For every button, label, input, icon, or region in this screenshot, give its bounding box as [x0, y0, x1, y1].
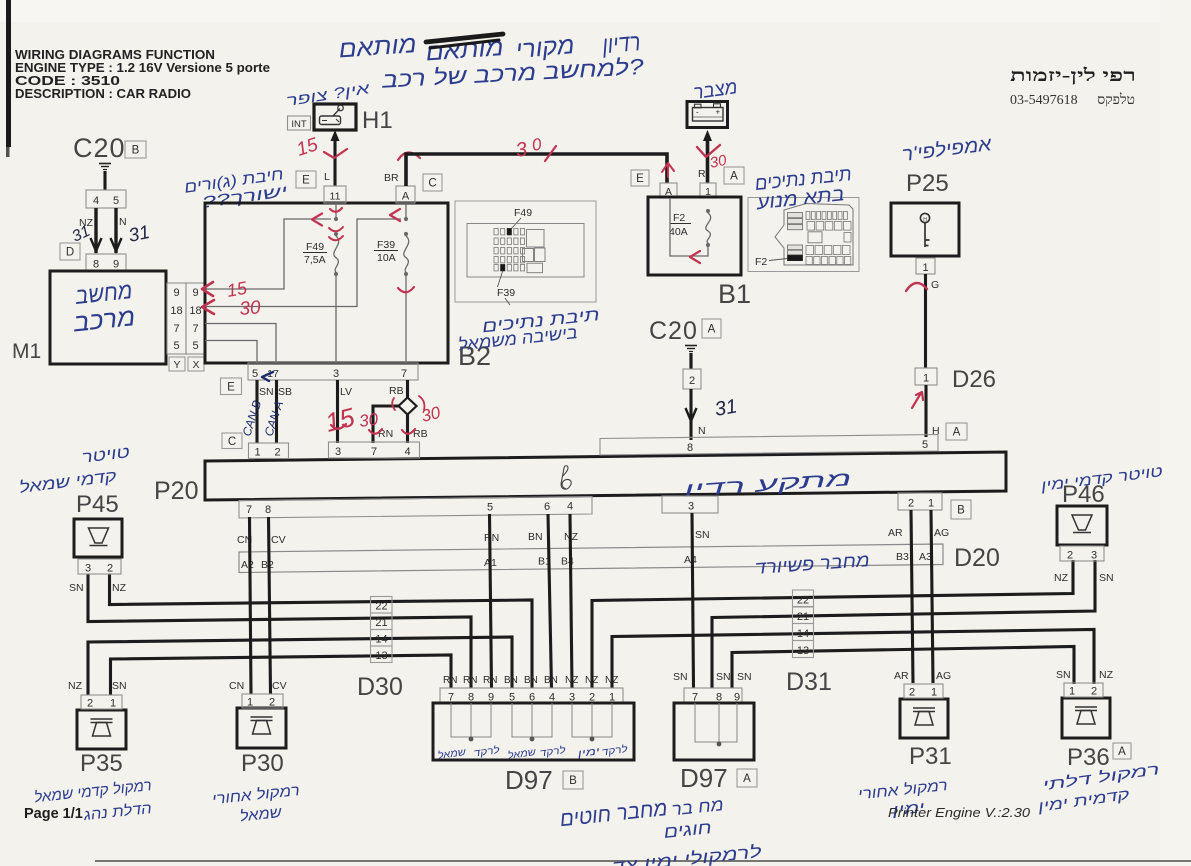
svg-text:CV: CV — [272, 680, 287, 692]
svg-text:9: 9 — [173, 287, 179, 299]
P35 pin row 2 1 — [81, 695, 122, 709]
svg-text:E: E — [636, 173, 644, 185]
svg-text:B3: B3 — [896, 551, 909, 563]
B2 internal wire from M1 pin18 to F39 — [205, 219, 401, 307]
unit P25 box with key icon — [891, 203, 959, 256]
svg-text:AR: AR — [894, 670, 909, 682]
svg-text:18: 18 — [170, 305, 182, 317]
svg-text:22: 22 — [797, 595, 809, 607]
D97A internal bridge — [695, 703, 737, 742]
crossover wire 22 left: P45 NZ to D97B pin6 — [110, 574, 533, 688]
unit H1 box with radio icon — [314, 104, 356, 130]
svg-text:RN: RN — [463, 675, 477, 686]
battery A1 — [687, 102, 728, 128]
svg-text:B: B — [132, 145, 140, 157]
wire NZ B4 vertical — [570, 514, 572, 688]
fusebox inset (dashboard) outer box — [455, 201, 596, 302]
svg-text:NZ: NZ — [1099, 669, 1114, 681]
B1 pin 1 box — [700, 183, 716, 198]
svg-text:2: 2 — [1067, 550, 1073, 562]
ground symbol C20B — [99, 163, 111, 165]
wire RN A1 vertical — [490, 514, 492, 688]
fuse F2 black bar — [788, 255, 803, 260]
connector box C top — [423, 174, 442, 191]
P36 pin row 1 2 — [1064, 683, 1103, 697]
svg-text:5: 5 — [252, 368, 258, 380]
svg-text:10A: 10A — [377, 252, 396, 264]
svg-text:R: R — [698, 168, 706, 180]
wire LV from pin3 — [336, 380, 339, 443]
svg-text:1: 1 — [1069, 686, 1075, 698]
svg-text:RB: RB — [389, 385, 404, 397]
svg-text:RN: RN — [484, 532, 499, 544]
svg-text:14: 14 — [797, 628, 809, 640]
svg-text:SN: SN — [737, 671, 752, 683]
svg-text:D20: D20 — [954, 544, 1000, 572]
svg-text:Page 1/1: Page 1/1 — [24, 806, 83, 822]
bottom scanner line — [95, 860, 1191, 862]
wire CV vertical — [269, 517, 271, 694]
radio icon inside H1 — [320, 116, 341, 125]
svg-text:F2: F2 — [755, 256, 767, 268]
svg-text:H: H — [923, 217, 927, 223]
INT connector box — [288, 116, 311, 130]
svg-text:1: 1 — [931, 687, 937, 699]
svg-text:Printer Engine V.:2.30: Printer Engine V.:2.30 — [888, 806, 1030, 820]
inner fusebox outline — [467, 224, 584, 278]
svg-text:21: 21 — [797, 611, 809, 623]
svg-text:D31: D31 — [786, 668, 832, 696]
svg-text:P30: P30 — [241, 750, 284, 777]
P20 top pin row right 8 5 — [600, 435, 938, 456]
wire CN vertical — [250, 517, 252, 694]
svg-text:2: 2 — [87, 698, 93, 710]
svg-text:טלפקס: טלפקס — [1097, 92, 1135, 108]
wire F49 to pin3 — [335, 276, 337, 363]
D97B pin row — [440, 688, 623, 703]
svg-text:4: 4 — [404, 446, 410, 458]
svg-text:D97: D97 — [505, 765, 553, 795]
wire G from P25 to D26 — [924, 274, 927, 368]
svg-text:C: C — [428, 178, 436, 190]
B2 pin A box — [396, 186, 415, 203]
svg-text:3: 3 — [1091, 550, 1097, 562]
svg-text:NZ: NZ — [112, 582, 127, 594]
wire from battery to B1 pin 1 — [706, 141, 710, 183]
junction boxes D30 left 22 21 14 13 — [371, 597, 393, 614]
svg-text:30: 30 — [358, 409, 380, 431]
svg-text:3: 3 — [85, 563, 91, 575]
junction boxes D31 right 22 21 14 13 — [793, 590, 814, 607]
svg-text:RN: RN — [483, 675, 497, 686]
crossover wire 13 right: D97A pin9 to P36 SN — [732, 647, 1074, 689]
svg-text:31: 31 — [127, 222, 152, 247]
svg-text:P35: P35 — [80, 750, 123, 777]
connector box B — [951, 500, 971, 519]
svg-text:22: 22 — [375, 601, 387, 613]
svg-text:INT: INT — [291, 119, 307, 130]
svg-text:SN: SN — [1056, 669, 1071, 681]
wire SN CAN from pin5 — [255, 380, 258, 443]
speaker P31 box rear-right — [900, 699, 948, 738]
svg-text:18: 18 — [189, 305, 201, 317]
svg-text:2: 2 — [274, 447, 280, 459]
svg-text:1: 1 — [928, 498, 934, 510]
svg-text:P36: P36 — [1067, 744, 1110, 771]
svg-text:30: 30 — [239, 297, 262, 320]
svg-text:SN: SN — [1099, 572, 1114, 584]
red arrow at B1 pin A — [662, 163, 674, 177]
svg-text:BN: BN — [524, 675, 538, 686]
P20 bottom pin row 3 — [662, 496, 718, 513]
svg-text:A4: A4 — [684, 554, 697, 566]
module B2 box — [205, 203, 448, 363]
connector box A at P20 pin5 — [946, 423, 967, 440]
wire stub from ground — [103, 171, 106, 190]
red check over H1 wire — [324, 149, 347, 158]
svg-text:X: X — [192, 359, 199, 371]
junction D26 pin 1 box — [915, 368, 937, 385]
P25 pin 1 box — [916, 258, 935, 274]
svg-text:LV: LV — [340, 386, 352, 398]
P30 pin row 1 2 — [242, 694, 283, 708]
svg-text:8: 8 — [93, 259, 99, 271]
svg-text:AG: AG — [936, 670, 951, 682]
svg-text:C20: C20 — [649, 317, 698, 345]
wire N from C20A to P20 pin 8 — [689, 389, 692, 440]
D97A pin row — [684, 688, 742, 703]
wire NZ pin4 — [94, 208, 97, 253]
svg-text:AR: AR — [888, 527, 903, 539]
svg-text:1: 1 — [247, 697, 253, 709]
speaker P36 box front-right door — [1062, 698, 1110, 738]
svg-text:7: 7 — [371, 446, 377, 458]
C20A pin 2 box — [683, 369, 701, 389]
svg-text:1: 1 — [923, 373, 929, 385]
connector box D — [60, 243, 80, 260]
svg-text:7: 7 — [246, 504, 252, 516]
svg-text:Y: Y — [173, 359, 180, 371]
svg-text:-: - — [696, 108, 699, 117]
svg-text:A2: A2 — [241, 559, 254, 571]
svg-text:14: 14 — [375, 634, 387, 646]
fusebox small fuses — [806, 212, 810, 220]
connector C20B pins 4 5 — [86, 190, 126, 208]
svg-text:7: 7 — [173, 323, 179, 335]
svg-text:5: 5 — [192, 340, 198, 352]
fusebox outline drawing — [775, 204, 853, 266]
svg-text:DESCRIPTION : CAR RADIO: DESCRIPTION : CAR RADIO — [15, 86, 191, 101]
svg-text:A: A — [1118, 746, 1126, 758]
B2 internal wire pin7 row — [205, 324, 276, 364]
svg-text:13: 13 — [375, 650, 387, 662]
speaker P45 box tweeter front-left — [74, 519, 122, 557]
speaker P35 box front-left door — [77, 710, 126, 749]
speaker P46 box tweeter front-right — [1057, 506, 1107, 545]
svg-text:G: G — [931, 279, 939, 291]
svg-text:F49: F49 — [514, 207, 532, 219]
wire 30 feed from B2 pin A to B1 pin A — [406, 154, 667, 186]
connector D20 bar — [239, 544, 943, 573]
svg-text:2: 2 — [107, 563, 113, 575]
B2 bottom pin row 5 17 3 7 — [248, 363, 418, 380]
svg-text:9: 9 — [192, 287, 198, 299]
speaker P30 box rear-left — [237, 708, 286, 748]
svg-text:5: 5 — [487, 502, 493, 514]
red V mark and 30 on battery wire — [697, 145, 720, 157]
module B1 box — [648, 197, 741, 275]
svg-text:AG: AG — [934, 527, 949, 539]
svg-text:F49: F49 — [306, 241, 324, 253]
svg-text:F2: F2 — [673, 212, 685, 224]
svg-text:2: 2 — [1091, 686, 1097, 698]
svg-text:SN: SN — [716, 671, 731, 683]
crossover wire 14 left: P35 NZ to D97B pin5 — [88, 637, 512, 695]
svg-text:D30: D30 — [357, 673, 403, 701]
D97B internal bridge 2 — [512, 703, 552, 737]
svg-text:מותאם: מותאם — [338, 31, 418, 63]
B1 pin A box — [660, 183, 677, 198]
connector box X — [188, 357, 204, 371]
svg-text:A: A — [402, 191, 410, 203]
crossover wire 13 left: P35 SN to D97B pin7 — [111, 655, 452, 695]
red arrow on wire — [912, 392, 923, 408]
wire SN into D97A pin7 — [692, 686, 695, 689]
svg-text:H1: H1 — [362, 107, 393, 134]
red mark in B1 — [690, 251, 700, 263]
B2 internal wire pin5 row — [205, 341, 257, 364]
svg-text:רפי לין-יזמות: רפי לין-יזמות — [1010, 65, 1136, 85]
svg-text:SB: SB — [278, 386, 292, 398]
wire SN A4 vertical — [692, 513, 694, 688]
P20 bottom pin row left 7 8 — [239, 497, 592, 519]
connector C20B pins 8 9 — [86, 254, 126, 271]
svg-text:2: 2 — [909, 687, 915, 699]
svg-text:M1: M1 — [12, 340, 41, 363]
ground symbol C20A — [685, 345, 697, 347]
wire F39 to pin7 — [405, 276, 407, 363]
svg-text:SN: SN — [112, 680, 127, 692]
M1 pin column X — [186, 283, 205, 354]
red handwritten 30 at M1 pin18 line — [202, 300, 214, 314]
svg-text:SN: SN — [673, 671, 688, 683]
svg-text:13: 13 — [797, 645, 809, 657]
svg-text:BN: BN — [544, 675, 558, 686]
svg-text:2: 2 — [269, 697, 275, 709]
svg-text:31: 31 — [713, 395, 739, 421]
svg-text:P45: P45 — [76, 491, 119, 518]
svg-text:9: 9 — [113, 259, 119, 271]
connector box C bottom — [222, 433, 242, 449]
svg-text:03-5497618: 03-5497618 — [1010, 93, 1078, 108]
svg-text:D97: D97 — [680, 763, 728, 793]
svg-text:SN: SN — [259, 386, 274, 398]
svg-text:E: E — [302, 175, 310, 187]
svg-text:2: 2 — [689, 375, 695, 387]
P20 top pin row C 1 2 — [249, 443, 289, 459]
svg-text:C20: C20 — [73, 133, 126, 163]
wire SB CAN from pin17 — [275, 380, 278, 443]
svg-text:5: 5 — [922, 439, 928, 451]
left scanner black edge — [6, 0, 11, 147]
svg-text:A: A — [708, 324, 716, 336]
wire RN branch to pin7 — [373, 406, 400, 443]
svg-text:RN: RN — [443, 675, 457, 686]
svg-text:7,5A: 7,5A — [304, 254, 326, 266]
svg-text:1: 1 — [110, 698, 116, 710]
svg-text:L: L — [324, 171, 330, 183]
svg-text:11: 11 — [330, 191, 341, 203]
wire AR B3 vertical — [911, 510, 913, 683]
connector box E left of B1 — [631, 170, 649, 186]
svg-text:P20: P20 — [154, 477, 198, 505]
svg-text:3: 3 — [335, 446, 341, 458]
wire RB branch to pin4 — [406, 415, 409, 444]
treble clef symbol inside P20 — [561, 466, 571, 489]
B2 pin 11 box — [324, 186, 346, 203]
svg-text:40A: 40A — [669, 226, 688, 238]
svg-text:B1: B1 — [718, 279, 751, 309]
P20 bottom pin row 2 1 — [898, 493, 942, 510]
fusebox big cells — [527, 230, 545, 248]
svg-text:F39: F39 — [497, 287, 515, 299]
svg-text:P25: P25 — [906, 170, 949, 197]
connector box E top — [296, 171, 316, 188]
svg-text:8: 8 — [265, 504, 271, 516]
svg-text:2: 2 — [908, 498, 914, 510]
svg-text:CN: CN — [229, 680, 244, 692]
fuse grid — [494, 229, 498, 235]
svg-text:D: D — [66, 247, 74, 259]
wire RB from pin7 with split — [406, 380, 409, 399]
svg-text:3: 3 — [688, 501, 694, 513]
svg-text:CV: CV — [271, 534, 286, 546]
module M1 body computer box — [50, 271, 166, 364]
D97B internal bridge 1 — [451, 703, 491, 737]
svg-text:BN: BN — [528, 531, 543, 543]
svg-text:C: C — [228, 436, 236, 448]
svg-text:P31: P31 — [909, 743, 952, 770]
svg-text:SN: SN — [695, 529, 710, 541]
svg-text:4: 4 — [567, 501, 573, 513]
wire from D26 to P20 pin 5 — [924, 385, 927, 437]
connector D97 B box — [433, 703, 634, 760]
connector box Y — [169, 357, 185, 371]
connector box E bottom — [221, 378, 242, 395]
svg-text:4: 4 — [93, 195, 99, 207]
svg-text:NZ: NZ — [585, 675, 598, 686]
svg-text:N: N — [698, 425, 706, 437]
svg-text:BN: BN — [504, 675, 518, 686]
svg-text:NZ: NZ — [565, 675, 578, 686]
wire BN B1 vertical — [548, 514, 552, 688]
svg-text:NZ: NZ — [605, 675, 618, 686]
svg-text:D26: D26 — [952, 366, 996, 393]
red arc mark — [906, 283, 927, 291]
svg-text:A: A — [730, 171, 738, 183]
D97B internal bridge 3 — [572, 703, 612, 737]
P31 pin row 2 1 — [904, 684, 943, 698]
crossover wire 21 left: P45 SN to D97B pin8 — [88, 574, 471, 688]
svg-text:A: A — [743, 773, 751, 785]
wire AG A3 vertical — [931, 510, 933, 683]
F39 pointer label — [498, 272, 503, 288]
crossover wire 22 right: D97B pin2 to P46 NZ — [592, 560, 1073, 688]
connector box A right of battery wire — [724, 167, 744, 184]
P46 pin row 2 3 — [1060, 546, 1104, 561]
svg-text:6: 6 — [544, 501, 550, 513]
svg-text:E: E — [227, 381, 235, 393]
fusebox inset (engine bay) outer box — [748, 198, 859, 272]
svg-text:NZ: NZ — [1054, 572, 1069, 584]
radio unit P20 long bar — [205, 452, 1006, 500]
wire from H1 down to B2 pin 11 — [333, 140, 336, 186]
P20 top pin row 3 7 4 — [329, 442, 420, 458]
M1 pin column Y — [167, 283, 186, 354]
splice diamond — [399, 398, 417, 415]
black strikethrough over word — [426, 34, 503, 42]
svg-text:7: 7 — [192, 323, 198, 335]
svg-text:7: 7 — [401, 368, 407, 380]
crossover wire 14 right: D97B pin1 to P36 NZ — [612, 630, 1094, 689]
svg-text:SN: SN — [69, 582, 84, 594]
svg-text:A: A — [953, 427, 961, 439]
red handwritten 15 at M1 pin9 line — [202, 282, 213, 296]
svg-text:F39: F39 — [377, 239, 395, 251]
svg-text:B: B — [569, 775, 577, 787]
P45 pin row 3 2 — [78, 559, 121, 574]
svg-text:B: B — [957, 505, 965, 517]
svg-text:21: 21 — [375, 617, 387, 629]
svg-text:8: 8 — [687, 442, 693, 454]
svg-text:NZ: NZ — [68, 680, 83, 692]
svg-text:3: 3 — [333, 368, 339, 380]
B2 internal wire from M1 pin9 to F49 — [205, 219, 331, 289]
svg-text:5: 5 — [113, 195, 119, 207]
red marks on B2 fuses — [312, 214, 322, 226]
svg-text:N: N — [119, 216, 127, 228]
connector D97 A box — [674, 703, 754, 760]
fusebox left fuse bars — [788, 213, 803, 218]
svg-text:BR: BR — [384, 172, 399, 184]
wire N pin5 — [114, 208, 117, 253]
crossover wire 21 right: D97A pin8 to P46 SN — [712, 560, 1095, 688]
svg-text:1: 1 — [254, 447, 260, 459]
svg-text:5: 5 — [173, 340, 179, 352]
svg-text:+: + — [716, 108, 721, 117]
svg-text:1: 1 — [922, 262, 928, 274]
